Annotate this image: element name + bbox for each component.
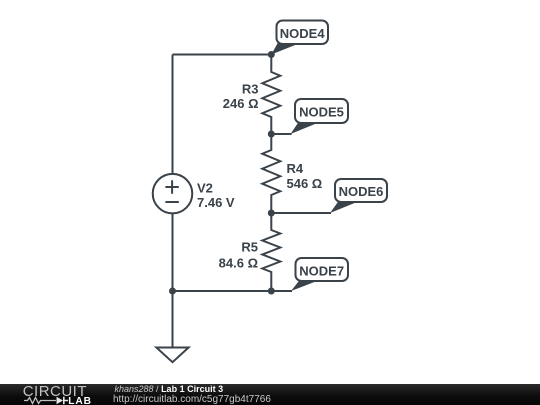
wire left vertical upper [172,55,174,175]
wire left vertical lower [172,213,174,291]
node flag NODE4 [277,21,329,45]
node flag NODE6 [335,179,387,202]
svg-text:R4: R4 [287,161,304,176]
V2 minus sign [165,201,178,203]
callout tail NODE6 [330,202,357,213]
svg-text:NODE6: NODE6 [339,184,384,199]
ground symbol [156,348,188,363]
svg-text:V2: V2 [197,181,213,196]
svg-text:khans288 / Lab 1 Circuit 3: khans288 / Lab 1 Circuit 3 [115,384,224,394]
node junction dot NODE7 [268,288,275,295]
resistor R5 [262,213,280,291]
logo diode [57,397,64,404]
callout tail NODE7 [291,281,317,291]
svg-text:NODE5: NODE5 [299,104,344,119]
node flag NODE7 [296,258,349,281]
svg-text:NODE4: NODE4 [280,26,326,41]
svg-text:246 Ω: 246 Ω [223,96,259,111]
logo resistor zigzag [24,398,56,404]
node junction dot NODE4 [268,51,275,58]
wire top horizontal [173,54,272,56]
resistor R3 [262,55,280,135]
wire bottom horizontal [173,290,293,292]
voltage source V2 circle [153,174,193,214]
svg-text:546 Ω: 546 Ω [287,176,323,191]
callout tail NODE4 [271,43,298,55]
node junction dot NODE5 [268,131,275,138]
svg-text:7.46 V: 7.46 V [197,195,235,210]
node junction dot ground [169,288,176,295]
wire NODE6 stub [271,212,331,214]
callout tail NODE5 [291,123,318,134]
resistor R4 [262,134,280,213]
svg-text:LAB: LAB [68,396,92,405]
wire NODE5 stub [271,133,291,135]
wire ground lead [172,291,174,348]
svg-text:R3: R3 [242,82,259,97]
node flag NODE5 [295,99,348,123]
svg-text:84.6 Ω: 84.6 Ω [219,256,258,271]
svg-text:http://circuitlab.com/c5g77gb4: http://circuitlab.com/c5g77gb4t7766 [113,394,271,405]
node junction dot NODE6 [268,210,275,217]
svg-text:NODE7: NODE7 [299,264,344,279]
V2 plus sign [165,180,178,193]
svg-text:R5: R5 [241,240,258,255]
